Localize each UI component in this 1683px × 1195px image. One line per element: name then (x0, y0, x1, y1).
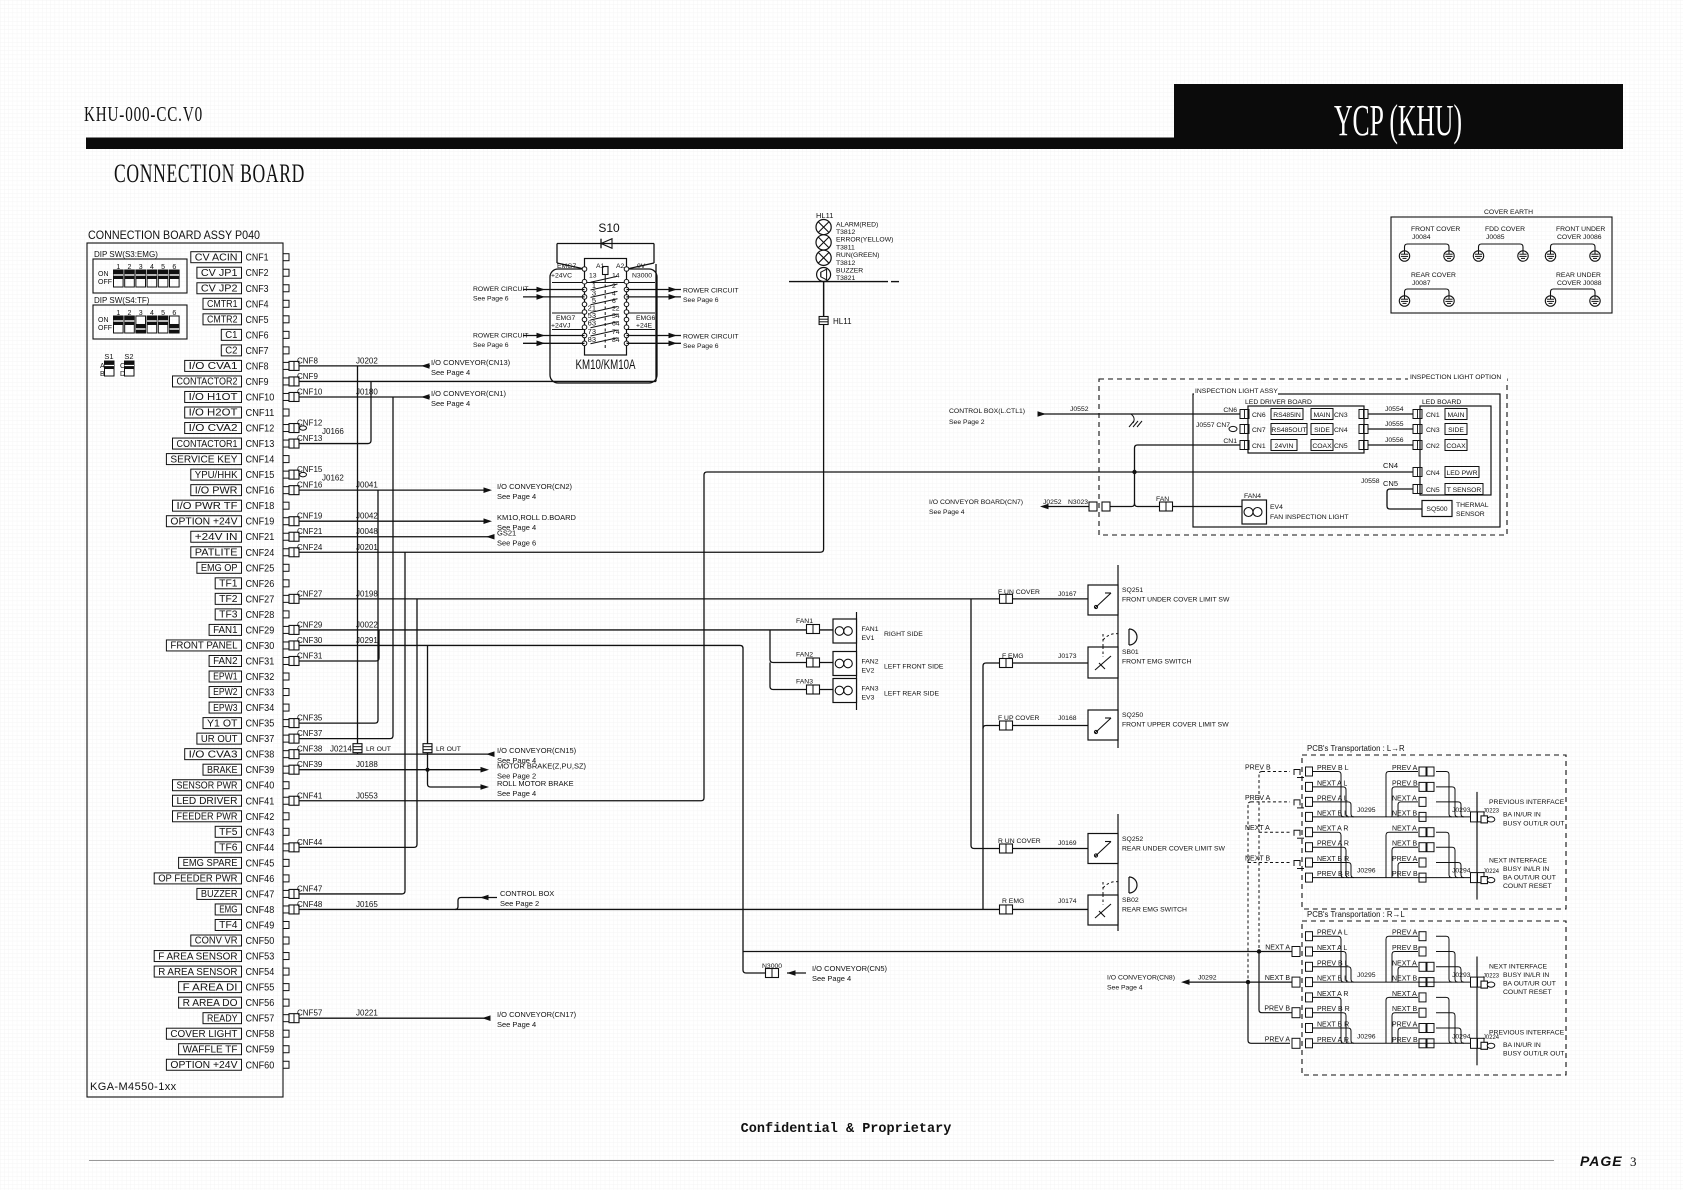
svg-text:N3000: N3000 (762, 963, 782, 970)
svg-text:3: 3 (1630, 1154, 1637, 1169)
wire CNF9 to KM10 0V (299, 380, 656, 382)
connector LR OUT (left) (353, 744, 362, 753)
svg-text:BUSY IN/LR IN: BUSY IN/LR IN (1503, 972, 1549, 979)
svg-text:+24E: +24E (636, 323, 653, 330)
pcb transportation R-L group 1 wires (1306, 930, 1556, 996)
connector CNF57 READY (203, 1013, 299, 1025)
wire lamp bar (789, 281, 888, 283)
svg-text:FRONT UNDER: FRONT UNDER (1556, 226, 1605, 233)
svg-text:TF2: TF2 (219, 594, 238, 605)
svg-text:R AREA DO: R AREA DO (183, 998, 238, 1009)
lamp stack HL11 (816, 211, 893, 282)
connector CNF59 WAFFLE TF (179, 1044, 289, 1056)
svg-text:+24V IN: +24V IN (195, 532, 238, 543)
emg button symbol SB01 (1102, 634, 1104, 647)
svg-text:LED BOARD: LED BOARD (1422, 399, 1461, 406)
svg-text:CNF6: CNF6 (246, 329, 269, 341)
svg-text:LEFT REAR SIDE: LEFT REAR SIDE (884, 691, 939, 698)
svg-text:J0296: J0296 (1357, 1033, 1376, 1040)
svg-text:CNF8: CNF8 (246, 360, 269, 372)
svg-text:CN5: CN5 (1334, 443, 1348, 450)
svg-text:CN2: CN2 (1426, 443, 1440, 450)
svg-text:CN1: CN1 (1426, 412, 1440, 419)
svg-text:FAN1: FAN1 (796, 618, 813, 625)
svg-text:S2: S2 (124, 352, 133, 361)
fan FAN2 EV2 (833, 652, 944, 676)
svg-text:ROWER CIRCUIT: ROWER CIRCUIT (473, 333, 529, 340)
svg-text:J0087: J0087 (1412, 280, 1431, 287)
svg-text:S1: S1 (104, 352, 113, 361)
connector CNF16 I/O PWR (191, 485, 299, 497)
svg-text:CNF15: CNF15 (246, 469, 275, 481)
svg-text:SQ251: SQ251 (1122, 587, 1143, 594)
svg-text:PREV A L: PREV A L (1317, 795, 1348, 802)
connector CNF5 CMTR2 (203, 314, 289, 326)
svg-text:CNF10: CNF10 (246, 391, 275, 403)
fan FAN3 EV3 (833, 679, 939, 703)
node CNF38 label (297, 745, 352, 754)
svg-text:PREV A: PREV A (1245, 795, 1271, 802)
svg-text:CONV VR: CONV VR (195, 936, 238, 947)
connector PREV A (external, R-L box) (1292, 1038, 1300, 1048)
svg-text:J0174: J0174 (1058, 898, 1077, 905)
svg-text:FAN3: FAN3 (862, 686, 879, 693)
svg-text:PREVIOUS INTERFACE: PREVIOUS INTERFACE (1489, 1030, 1565, 1037)
svg-text:See Page 4: See Page 4 (1107, 985, 1143, 992)
svg-text:BA IN/UR IN: BA IN/UR IN (1503, 812, 1541, 819)
connector CNF8 I/O CVA1 (185, 360, 299, 372)
svg-text:PREV B: PREV B (1392, 1037, 1418, 1044)
svg-text:FRONT EMG SWITCH: FRONT EMG SWITCH (1122, 659, 1191, 666)
svg-text:CNF30: CNF30 (246, 640, 275, 652)
svg-text:PREV B L: PREV B L (1317, 765, 1349, 772)
connector CNF3 CV JP2 (197, 283, 289, 295)
svg-text:PREV B L: PREV B L (1317, 960, 1349, 967)
node CNF39 label (297, 760, 378, 769)
svg-text:J0041: J0041 (356, 481, 378, 490)
svg-text:CNF4: CNF4 (246, 298, 269, 310)
svg-text:DIP SW(S4:TF): DIP SW(S4:TF) (94, 296, 150, 305)
svg-text:J0552: J0552 (1070, 406, 1089, 413)
wire CNF31 up to FAN circuit (299, 630, 379, 661)
svg-text:DIP SW(S3:EMG): DIP SW(S3:EMG) (94, 250, 158, 259)
svg-text:J0162: J0162 (322, 474, 344, 483)
connector CNF55 F AREA DI (179, 982, 289, 994)
svg-text:CNF45: CNF45 (246, 857, 275, 869)
svg-text:CNF30: CNF30 (297, 636, 323, 645)
fan rail (856, 612, 858, 710)
wire HL11 drop (823, 282, 825, 316)
svg-text:CN5: CN5 (1426, 487, 1440, 494)
connector CNF53 F AREA SENSOR (154, 951, 289, 963)
svg-text:WAFFLE TF: WAFFLE TF (183, 1044, 238, 1055)
svg-text:+24VC: +24VC (551, 273, 572, 280)
svg-text:COVER J0086: COVER J0086 (1557, 234, 1602, 241)
svg-text:CN1: CN1 (1223, 438, 1237, 445)
svg-text:FAN2: FAN2 (862, 659, 879, 666)
pcb transportation R-L group 2 wires (1306, 991, 1565, 1058)
svg-text:CNF59: CNF59 (246, 1044, 275, 1056)
svg-text:J0201: J0201 (356, 543, 378, 552)
svg-text:R EMG: R EMG (1002, 898, 1024, 905)
svg-text:TF3: TF3 (219, 610, 238, 621)
svg-text:BUZZER: BUZZER (201, 889, 238, 900)
pcb transportation R-L interface rail (1476, 957, 1478, 1066)
wire CNF24 to HL11 patlite (299, 282, 824, 552)
svg-text:FRONT COVER: FRONT COVER (1411, 226, 1460, 233)
svg-text:OFF: OFF (98, 325, 112, 332)
svg-text:CNF41: CNF41 (297, 791, 323, 800)
shield ground hatch (1131, 414, 1134, 423)
svg-text:CNF57: CNF57 (246, 1013, 275, 1025)
limit switch SQ251 (1088, 585, 1118, 615)
svg-text:C2: C2 (225, 346, 238, 357)
svg-text:CNF44: CNF44 (297, 838, 323, 847)
svg-text:See Page 4: See Page 4 (812, 974, 851, 983)
svg-text:CNF1: CNF1 (246, 252, 269, 264)
svg-text:CONTROL BOX: CONTROL BOX (500, 889, 554, 898)
contact 13-14 (591, 276, 618, 282)
connector CNF31 FAN2 (209, 655, 299, 667)
svg-text:CN4: CN4 (1383, 461, 1398, 470)
svg-text:COAX: COAX (1312, 443, 1332, 450)
wire CNF10 branch down to CNF37 (299, 397, 393, 739)
wire CNF24 branch down (bus to CNF39/CNF47) (404, 552, 406, 891)
connector CNF11 I/O H2OT (185, 407, 289, 419)
svg-text:PATLITE: PATLITE (195, 547, 238, 558)
svg-text:EMG: EMG (219, 905, 237, 916)
svg-text:J0555: J0555 (1385, 421, 1404, 428)
wire CNF8 branch down to LR OUT / CNF38 (357, 366, 359, 754)
svg-text:TF6: TF6 (219, 843, 238, 854)
svg-text:J0221: J0221 (356, 1009, 378, 1018)
svg-text:CNF13: CNF13 (246, 438, 275, 450)
svg-text:24VIN: 24VIN (1275, 443, 1294, 450)
svg-text:CN4: CN4 (1334, 427, 1348, 434)
svg-text:ROWER CIRCUIT: ROWER CIRCUIT (683, 334, 739, 341)
svg-text:EPW3: EPW3 (213, 703, 238, 714)
svg-text:PAGE: PAGE (1580, 1153, 1623, 1169)
wire cover-switch vertical to R UN COVER (971, 599, 1088, 849)
connector LED BOARD CN5 T SENSOR (1413, 485, 1422, 494)
svg-text:COVER EARTH: COVER EARTH (1484, 209, 1533, 216)
connector CNF34 EPW3 (209, 702, 289, 714)
svg-text:J0553: J0553 (356, 791, 378, 800)
svg-text:CMTR1: CMTR1 (207, 299, 238, 310)
svg-text:J0169: J0169 (1058, 840, 1077, 847)
svg-text:F UN COVER: F UN COVER (998, 589, 1040, 596)
svg-text:14: 14 (612, 273, 620, 280)
svg-text:RIGHT SIDE: RIGHT SIDE (884, 631, 923, 638)
wire CNF41 to LED PWR CN4 (299, 472, 1413, 801)
svg-text:CNF48: CNF48 (297, 900, 323, 909)
connector F UN COVER (1000, 594, 1013, 603)
svg-text:EPW2: EPW2 (213, 687, 238, 698)
svg-text:EMG SPARE: EMG SPARE (183, 858, 238, 869)
svg-text:CN3: CN3 (1334, 412, 1348, 419)
connector CNF25 EMG OP (197, 562, 289, 574)
svg-text:CNF39: CNF39 (246, 764, 275, 776)
svg-text:REAR UNDER COVER LIMIT SW: REAR UNDER COVER LIMIT SW (1122, 846, 1226, 853)
svg-text:CNF49: CNF49 (246, 919, 275, 931)
svg-text:A1: A1 (596, 263, 605, 270)
node CNF13 label (297, 434, 323, 443)
limit switch SQ252 (1088, 834, 1118, 864)
svg-text:MAIN: MAIN (1314, 412, 1331, 419)
svg-text:CNF27: CNF27 (246, 593, 275, 605)
svg-text:FRONT UPPER COVER LIMIT SW: FRONT UPPER COVER LIMIT SW (1122, 722, 1229, 729)
svg-text:NEXT A R: NEXT A R (1317, 826, 1348, 833)
svg-text:CNF41: CNF41 (246, 795, 275, 807)
node CNF31 label (297, 651, 323, 660)
svg-text:F EMG: F EMG (1002, 653, 1024, 660)
wire CNF38 to I/O CONVEYOR(CN15) with LR OUT connectors (299, 753, 492, 755)
svg-text:I/O CONVEYOR(CN1): I/O CONVEYOR(CN1) (431, 389, 507, 398)
connector LED BOARD CN2 COAX (1413, 441, 1422, 450)
connector CNF39 BRAKE (203, 764, 299, 776)
svg-text:T SENSOR: T SENSOR (1447, 487, 1482, 494)
wire CNF29 to FAN1 (299, 629, 833, 631)
svg-text:F AREA DI: F AREA DI (183, 982, 238, 993)
svg-text:CNF12: CNF12 (246, 423, 275, 435)
svg-text:NEXT B: NEXT B (1392, 841, 1417, 848)
svg-text:CNF47: CNF47 (297, 884, 323, 893)
svg-text:I/O CONVEYOR(CN15): I/O CONVEYOR(CN15) (497, 746, 577, 755)
svg-text:CNF43: CNF43 (246, 826, 275, 838)
svg-text:CN7: CN7 (1252, 427, 1266, 434)
svg-text:BUSY OUT/LR OUT: BUSY OUT/LR OUT (1503, 821, 1564, 828)
svg-text:OPTION +24V: OPTION +24V (170, 1060, 237, 1071)
svg-text:J0557 CN7: J0557 CN7 (1196, 422, 1230, 429)
svg-text:ALARM(RED): ALARM(RED) (836, 221, 878, 228)
svg-text:EMG7: EMG7 (557, 263, 576, 270)
wire CNF39 branch ROLL MOTOR BRAKE (428, 784, 485, 787)
connector CNF26 TF1 (215, 578, 289, 590)
svg-text:R AREA SENSOR: R AREA SENSOR (158, 967, 237, 978)
svg-text:PREV B: PREV B (1245, 765, 1271, 772)
svg-text:CNF19: CNF19 (246, 516, 275, 528)
svg-text:CONNECTION BOARD ASSY P040: CONNECTION BOARD ASSY P040 (88, 230, 260, 242)
selector switch S2 (120, 352, 134, 378)
svg-text:PREVIOUS INTERFACE: PREVIOUS INTERFACE (1489, 799, 1565, 806)
connector CNF10 I/O H1OT (185, 391, 299, 403)
svg-text:CNF55: CNF55 (246, 982, 275, 994)
wire branch CONTROL BOX (455, 898, 497, 910)
svg-text:CNF33: CNF33 (246, 687, 275, 699)
svg-text:J0252: J0252 (1043, 499, 1062, 506)
svg-text:CNF14: CNF14 (246, 454, 275, 466)
svg-text:REAR COVER: REAR COVER (1411, 272, 1456, 279)
svg-text:J0048: J0048 (356, 527, 378, 536)
svg-text:NEXT A: NEXT A (1392, 960, 1417, 967)
svg-text:COVER J0088: COVER J0088 (1557, 280, 1602, 287)
connector FAN2 (807, 658, 820, 667)
svg-text:See Page 6: See Page 6 (683, 343, 719, 350)
svg-text:CN6: CN6 (1252, 412, 1266, 419)
svg-text:ON: ON (98, 317, 109, 324)
node CNF21 label (297, 527, 378, 536)
node CNF30 label (297, 636, 378, 645)
svg-text:FDD COVER: FDD COVER (1485, 226, 1525, 233)
node CNF16 label (297, 481, 378, 490)
svg-text:ROLL MOTOR BRAKE: ROLL MOTOR BRAKE (497, 779, 574, 788)
wire NEXT A chain to PREV B (1259, 952, 1292, 1013)
connector R EMG (1000, 905, 1013, 914)
connector CNF7 C2 (221, 345, 289, 357)
svg-text:PREV B: PREV B (1392, 780, 1418, 787)
svg-text:FAN1: FAN1 (862, 626, 879, 633)
svg-text:CNF2: CNF2 (246, 267, 269, 279)
svg-text:EV1: EV1 (862, 635, 875, 642)
svg-text:CNF57: CNF57 (297, 1009, 323, 1018)
contactor KM10/KM10A (550, 259, 657, 384)
svg-text:OP FEEDER PWR: OP FEEDER PWR (158, 874, 237, 885)
connector CNF41 LED DRIVER (173, 795, 300, 807)
wire FAN branch to FAN2 and FAN3 (770, 630, 833, 663)
svg-text:CNF47: CNF47 (246, 888, 275, 900)
node CNF48 label (297, 900, 378, 909)
connector F EMG (1000, 659, 1013, 668)
svg-text:J0166: J0166 (322, 427, 344, 436)
svg-text:J0085: J0085 (1486, 234, 1505, 241)
connector CN6 row RS485IN MAIN CN3 (1223, 407, 1368, 420)
wire ROWER CIRCUIT right top (627, 289, 682, 291)
svg-text:J0556: J0556 (1385, 437, 1404, 444)
connector J0252 N3023 (1089, 502, 1097, 511)
pcb transportation L-R dashed box (1302, 755, 1566, 909)
svg-text:COUNT RESET: COUNT RESET (1503, 989, 1552, 996)
svg-text:+24VJ: +24VJ (551, 323, 570, 330)
svg-text:CNF13: CNF13 (297, 434, 323, 443)
svg-text:READY: READY (207, 1013, 238, 1024)
svg-text:EMG7: EMG7 (556, 315, 575, 322)
svg-text:TF5: TF5 (219, 827, 238, 838)
svg-text:GS21: GS21 (497, 529, 516, 538)
svg-text:I/O CONVEYOR(CN8): I/O CONVEYOR(CN8) (1107, 975, 1175, 982)
svg-text:13: 13 (589, 273, 597, 280)
svg-text:SQ250: SQ250 (1122, 712, 1143, 719)
pcb transportation L-R interface rail (1476, 792, 1478, 900)
svg-text:NEXT B: NEXT B (1265, 975, 1290, 982)
svg-text:FAN: FAN (1156, 496, 1169, 503)
svg-text:THERMAL: THERMAL (1456, 502, 1489, 509)
svg-text:CNF12: CNF12 (297, 419, 323, 428)
svg-text:CN4: CN4 (1426, 470, 1440, 477)
wire I/O CONVEYOR(CN8) J0292 (1189, 981, 1292, 983)
svg-text:ERROR(YELLOW): ERROR(YELLOW) (836, 237, 893, 244)
connector CNF58 COVER LIGHT (166, 1028, 289, 1040)
connector CNF14 SERVICE KEY (166, 454, 289, 466)
svg-text:I/O CONVEYOR BOARD(CN7): I/O CONVEYOR BOARD(CN7) (929, 499, 1023, 506)
svg-text:NEXT INTERFACE: NEXT INTERFACE (1489, 858, 1548, 865)
svg-text:J0558: J0558 (1361, 478, 1380, 485)
svg-text:PCB's Transportation : R→L: PCB's Transportation : R→L (1307, 910, 1405, 919)
svg-text:TF4: TF4 (219, 920, 238, 931)
svg-text:EPW1: EPW1 (213, 672, 238, 683)
connector NEXT B (external, R-L box) (1292, 977, 1300, 987)
vertical rail front switches (1117, 565, 1119, 748)
connector CNF32 EPW1 (209, 671, 289, 683)
thermal sensor SQ500 (1422, 501, 1452, 517)
connector N3000 (766, 969, 779, 978)
svg-text:BRAKE: BRAKE (207, 765, 238, 776)
svg-text:NEXT A: NEXT A (1392, 991, 1417, 998)
svg-text:BA IN/UR IN: BA IN/UR IN (1503, 1042, 1541, 1049)
svg-text:J0167: J0167 (1058, 591, 1077, 598)
svg-text:NEXT A: NEXT A (1392, 826, 1417, 833)
svg-text:CN5: CN5 (1383, 479, 1398, 488)
svg-text:CNF58: CNF58 (246, 1028, 275, 1040)
svg-text:SENSOR: SENSOR (1456, 511, 1485, 518)
wire CNF30 branch down to LR OUT / CNF38 (427, 645, 429, 784)
svg-text:PREV B: PREV B (1392, 871, 1418, 878)
svg-text:MAIN: MAIN (1448, 412, 1465, 419)
connector CNF9 CONTACTOR2 (173, 376, 300, 388)
svg-text:See Page 4: See Page 4 (497, 1020, 536, 1029)
wire CNF16 branch down to CNF35 (299, 490, 378, 723)
svg-text:CNF40: CNF40 (246, 780, 275, 792)
svg-text:BA OUT/UR OUT: BA OUT/UR OUT (1503, 875, 1556, 882)
node CNF8 label (297, 356, 378, 365)
svg-text:KGA-M4550-1xx: KGA-M4550-1xx (90, 1081, 177, 1093)
svg-text:SB02: SB02 (1122, 897, 1139, 904)
svg-text:CNF16: CNF16 (246, 485, 275, 497)
fan FAN1 EV1 (833, 619, 923, 643)
svg-text:CNF24: CNF24 (246, 547, 275, 559)
svg-text:PREV A: PREV A (1392, 765, 1418, 772)
svg-text:I/O PWR: I/O PWR (195, 485, 238, 496)
connector CNF60 OPTION +24V (166, 1059, 289, 1071)
svg-text:YCP (KHU): YCP (KHU) (1334, 96, 1462, 145)
svg-text:COUNT RESET: COUNT RESET (1503, 883, 1552, 890)
wire ROWER CIRCUIT right bottom (627, 335, 682, 337)
svg-text:A2: A2 (616, 263, 625, 270)
svg-text:I/O CVA2: I/O CVA2 (189, 423, 238, 434)
wire CNF8 to I/O CONVEYOR(CN13) (299, 365, 430, 367)
svg-text:EMG OP: EMG OP (201, 563, 238, 574)
header block YCP(KHU) (1174, 84, 1623, 149)
connector CNF13 CONTACTOR1 (173, 438, 300, 450)
connector CNF29 FAN1 (209, 624, 299, 636)
svg-text:BUSY OUT/LR OUT: BUSY OUT/LR OUT (1503, 1051, 1564, 1058)
svg-text:J0295: J0295 (1357, 972, 1376, 979)
svg-text:INSPECTION LIGHT ASSY: INSPECTION LIGHT ASSY (1195, 388, 1278, 395)
connector FAN (1160, 502, 1173, 511)
svg-text:CNF35: CNF35 (297, 714, 323, 723)
pcb transportation R-L dashed box (1302, 921, 1566, 1075)
svg-text:SIDE: SIDE (1448, 427, 1464, 434)
svg-text:CNF50: CNF50 (246, 935, 275, 947)
svg-text:CNF28: CNF28 (246, 609, 275, 621)
svg-text:I/O CONVEYOR(CN17): I/O CONVEYOR(CN17) (497, 1010, 577, 1019)
svg-text:CNF29: CNF29 (297, 620, 323, 629)
svg-text:See Page 6: See Page 6 (497, 539, 536, 548)
svg-text:See Page 4: See Page 4 (497, 789, 536, 798)
svg-text:I/O CONVEYOR(CN5): I/O CONVEYOR(CN5) (812, 964, 888, 973)
connector CNF15 YPU/HHK (191, 465, 345, 483)
node CNF41 label (297, 791, 378, 800)
svg-text:J0168: J0168 (1058, 715, 1077, 722)
vertical rail rear switches (1117, 814, 1119, 931)
svg-text:PREV B: PREV B (1392, 945, 1418, 952)
svg-text:LR OUT: LR OUT (366, 746, 391, 753)
node CNF35 label (297, 714, 323, 723)
svg-text:HL11: HL11 (816, 211, 833, 220)
svg-text:CV ACIN: CV ACIN (195, 252, 238, 263)
svg-text:N3000: N3000 (632, 273, 652, 280)
wire J0555 (1368, 428, 1413, 430)
svg-text:FAN1: FAN1 (213, 625, 238, 636)
